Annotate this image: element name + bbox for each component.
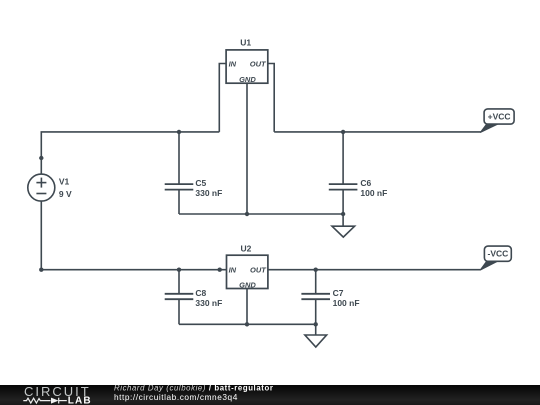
svg-text:100 nF: 100 nF bbox=[333, 298, 360, 308]
svg-text:330 nF: 330 nF bbox=[195, 188, 222, 198]
wire top rail left bbox=[41, 131, 220, 133]
wire C6 top vertical bbox=[342, 132, 344, 184]
+VCC flag bbox=[480, 109, 514, 133]
svg-text:9 V: 9 V bbox=[59, 189, 72, 199]
node dot U1 GND rail bbox=[245, 212, 249, 216]
svg-text:IN: IN bbox=[229, 59, 237, 68]
svg-text:LAB: LAB bbox=[68, 396, 92, 405]
svg-text:U2: U2 bbox=[240, 243, 251, 253]
node dot C7 bottom bbox=[314, 322, 318, 326]
capacitor C6 bbox=[329, 184, 358, 190]
svg-text:GND: GND bbox=[239, 281, 256, 290]
svg-text:-VCC: -VCC bbox=[488, 249, 509, 259]
node dot U2 IN bbox=[218, 268, 222, 272]
svg-text:IN: IN bbox=[229, 266, 237, 275]
svg-text:C8: C8 bbox=[195, 288, 206, 298]
wire U1 IN pin stub bbox=[219, 64, 226, 132]
node dot C5 top bbox=[177, 130, 181, 134]
node dot C7 top bbox=[314, 268, 318, 272]
op-amp U1 regulator box bbox=[226, 37, 268, 84]
svg-text:http://circuitlab.com/cmne3q4: http://circuitlab.com/cmne3q4 bbox=[114, 392, 238, 402]
wire C7 top vertical bbox=[315, 270, 317, 294]
voltage source V1 bbox=[28, 174, 55, 201]
-VCC flag bbox=[480, 246, 511, 270]
label V1 value bbox=[59, 177, 72, 199]
node dot C6 top bbox=[341, 130, 345, 134]
capacitor C8 bbox=[165, 294, 194, 299]
label C7 value bbox=[333, 288, 360, 308]
svg-text:330 nF: 330 nF bbox=[195, 298, 222, 308]
label C5 value bbox=[195, 178, 222, 198]
ground top-section bbox=[332, 214, 355, 237]
svg-text:C7: C7 bbox=[333, 288, 344, 298]
svg-text:V1: V1 bbox=[59, 177, 70, 187]
node dot C8 top bbox=[177, 268, 181, 272]
wire lower row left bbox=[41, 269, 227, 271]
svg-text:GND: GND bbox=[239, 75, 256, 84]
wire C6 bottom vertical bbox=[342, 190, 344, 214]
wire U2 GND vertical bbox=[246, 289, 248, 325]
op-amp U2 regulator box bbox=[227, 243, 268, 289]
wire C8 bottom vertical bbox=[178, 299, 180, 324]
wire bottom rail lower-section bbox=[179, 323, 316, 325]
svg-text:OUT: OUT bbox=[250, 266, 267, 275]
wire bottom rail top-section bbox=[179, 213, 343, 215]
wire C7 bottom vertical bbox=[315, 299, 317, 324]
svg-text:C6: C6 bbox=[360, 178, 371, 188]
label C8 value bbox=[195, 288, 222, 308]
svg-text:100 nF: 100 nF bbox=[360, 188, 387, 198]
wire C5 bottom vertical bbox=[178, 190, 180, 214]
wire C5 top vertical bbox=[178, 132, 180, 184]
wire V1 top vertical bbox=[40, 132, 42, 175]
svg-text:+VCC: +VCC bbox=[488, 112, 511, 122]
node dot corner V1 bottom bbox=[39, 268, 43, 272]
svg-text:U1: U1 bbox=[240, 37, 251, 47]
svg-text:OUT: OUT bbox=[250, 59, 267, 68]
label C6 value bbox=[360, 178, 387, 198]
svg-text:C5: C5 bbox=[195, 178, 206, 188]
node dot V1 top bbox=[39, 156, 43, 160]
node dot U2 GND rail bbox=[245, 322, 249, 326]
wire U1 GND vertical bbox=[246, 83, 248, 214]
wire U1 OUT pin stub bbox=[268, 64, 274, 132]
wire V1 bottom vertical bbox=[40, 200, 42, 269]
capacitor C5 bbox=[165, 184, 194, 190]
node dot C6 bottom bbox=[341, 212, 345, 216]
CircuitLab logo and credits bbox=[0, 385, 540, 405]
wire C8 top vertical bbox=[178, 270, 180, 294]
wire U2 OUT row to -VCC bbox=[268, 269, 481, 271]
wire top rail right to +VCC bbox=[274, 131, 480, 133]
ground lower-section bbox=[305, 324, 327, 347]
capacitor C7 bbox=[301, 294, 330, 299]
footer bar bbox=[0, 385, 540, 405]
